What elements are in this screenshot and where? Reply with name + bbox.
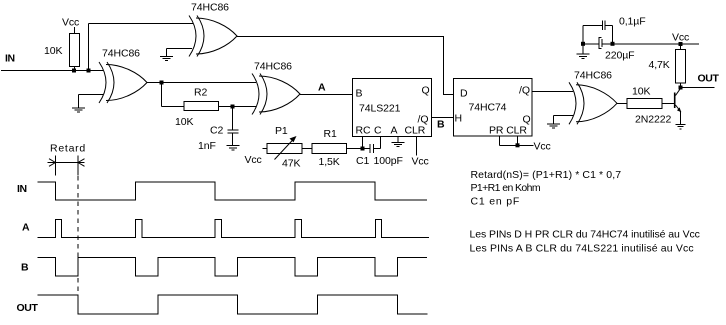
svg-text:P1+R1 en Kohm: P1+R1 en Kohm <box>471 182 541 194</box>
svg-text:A: A <box>22 222 30 234</box>
svg-text:1nF: 1nF <box>198 140 216 152</box>
resistor R2 body <box>184 102 219 111</box>
svg-text:100pF: 100pF <box>374 155 403 167</box>
node junction collector-OUT <box>679 86 683 90</box>
svg-text:B: B <box>437 119 445 131</box>
capacitor C2 plates <box>228 129 239 131</box>
pin CLR stub <box>517 136 519 145</box>
wire XOR1 lower input from ground <box>167 48 193 50</box>
pin RC stub <box>362 137 364 149</box>
node junction caps-rail <box>611 42 615 46</box>
wire 74LS221 /Q to H node B <box>432 117 454 119</box>
svg-text:C2: C2 <box>210 125 223 137</box>
capacitor C2 stem bottom <box>232 133 234 145</box>
svg-text:CLR: CLR <box>405 125 426 137</box>
wire Vcc rail <box>602 43 699 45</box>
IC U2 74HC74 box <box>454 79 533 137</box>
svg-text:C1 en pF: C1 en pF <box>471 196 521 208</box>
wire vertical to top XOR <box>88 24 90 71</box>
timing retard arrow left <box>49 159 56 167</box>
svg-text:RC: RC <box>356 125 371 137</box>
svg-text:IN: IN <box>5 53 15 65</box>
svg-text:OUT: OUT <box>17 302 39 314</box>
svg-text:H: H <box>455 113 462 125</box>
wire to R2 <box>162 106 185 108</box>
waveform IN <box>38 182 428 200</box>
svg-text:10K: 10K <box>175 116 193 128</box>
capacitor C1 plates <box>369 144 371 153</box>
svg-text:Vcc: Vcc <box>245 154 262 166</box>
wire decoupling left vertical <box>582 25 584 43</box>
potentiometer P1 body <box>267 144 302 154</box>
resistor 10K output body <box>627 99 662 109</box>
svg-text:74HC74: 74HC74 <box>469 102 507 114</box>
node junction Vcc-4,7K <box>679 42 683 46</box>
wire PR CLR to Vcc <box>500 144 534 146</box>
waveform B <box>38 258 428 277</box>
svg-text:Q: Q <box>422 85 430 97</box>
resistor R 10K pull-up body <box>70 34 80 67</box>
svg-text:A: A <box>391 125 398 137</box>
svg-text:47K: 47K <box>282 158 300 170</box>
svg-text:2N2222: 2N2222 <box>635 113 671 125</box>
node junction XOR2 out <box>160 81 164 85</box>
waveform OUT <box>38 295 428 314</box>
svg-text:Vcc: Vcc <box>62 17 79 29</box>
wire RC junction to C1 <box>363 148 370 150</box>
op-amp gate XOR3 74HC86 <box>252 74 300 115</box>
resistor R1 body <box>312 144 347 154</box>
wire decoupling top branch <box>583 24 602 26</box>
wire XOR4 output to 10K <box>617 102 627 104</box>
wire Vcc stub to P1 <box>263 148 268 150</box>
wire R2 to XOR3 lower input <box>219 106 257 108</box>
svg-text:74HC86: 74HC86 <box>102 48 140 60</box>
node junction IN-10K <box>72 69 76 73</box>
wire IN input <box>1 70 103 72</box>
svg-text:C: C <box>374 125 382 137</box>
ground XOR1 input <box>166 49 168 57</box>
resistor 4,7K body <box>676 50 686 84</box>
wire Q1 emitter to ground <box>680 112 682 124</box>
svg-text:Vcc: Vcc <box>534 141 551 153</box>
ground decoupling <box>582 44 584 54</box>
svg-text:Retard(nS)= (P1+R1) * C1 * 0,7: Retard(nS)= (P1+R1) * C1 * 0,7 <box>471 169 622 181</box>
wire 10K to Q1 base <box>662 102 674 104</box>
svg-text:D: D <box>460 88 468 100</box>
node junction IN-vertical <box>87 69 91 73</box>
svg-text:PR CLR: PR CLR <box>489 125 527 137</box>
svg-text:74HC86: 74HC86 <box>574 70 612 82</box>
wire 10K bottom stem <box>74 67 76 71</box>
wire CLR 74LS221 to Vcc <box>416 137 418 156</box>
svg-text:74LS221: 74LS221 <box>359 103 401 115</box>
CURVES <box>49 16 681 167</box>
node junction gnd-caps <box>581 42 585 46</box>
wire top to XOR1 input <box>89 23 194 25</box>
capacitor C2 stem top <box>232 107 234 130</box>
wire node down to R2 <box>161 83 163 107</box>
svg-text:P1: P1 <box>275 125 288 137</box>
ground C2 <box>227 145 240 147</box>
svg-text:B: B <box>21 262 29 274</box>
timing retard arrow right <box>78 159 85 167</box>
ground XOR2 input <box>78 95 80 108</box>
timing dashed delay line <box>77 176 79 291</box>
svg-text:/Q: /Q <box>519 85 530 97</box>
node junction RC-C1 <box>361 147 365 151</box>
svg-text:10K: 10K <box>44 45 62 57</box>
svg-text:IN: IN <box>17 183 27 195</box>
timing retard tick left <box>55 156 57 176</box>
wire XOR2 ground input <box>79 94 104 96</box>
wire Q1 collector up to 4,7K <box>680 83 682 88</box>
wire node A XOR3 to 74LS221 B <box>300 94 352 96</box>
node junction CLR-Vcc 74HC74 <box>516 143 520 147</box>
wire Vcc stem to 10K <box>74 27 76 34</box>
svg-text:R1: R1 <box>324 128 337 140</box>
wire XOR1 output to D <box>237 37 454 95</box>
pin C stub <box>380 137 382 149</box>
svg-text:220µF: 220µF <box>605 50 634 62</box>
transistor Q2 2N2222 <box>675 88 682 112</box>
capacitor 220uF plates <box>599 38 602 49</box>
timing retard dimension line <box>48 162 85 164</box>
svg-text:OUT: OUT <box>698 73 720 85</box>
IC U1 74LS221 box <box>353 79 432 137</box>
svg-text:B: B <box>356 88 363 100</box>
svg-text:74HC86: 74HC86 <box>191 2 229 14</box>
node junction R2-C2 <box>231 105 235 109</box>
potentiometer P1 arrow <box>275 136 297 160</box>
svg-text:C1: C1 <box>356 155 369 167</box>
svg-text:1,5K: 1,5K <box>319 156 340 168</box>
wire C1 to pin C <box>374 148 381 150</box>
wire R1 to RC junction <box>347 148 363 150</box>
wire 4,7K top to Vcc rail <box>680 44 682 50</box>
svg-text:Les PINs D H PR CLR du 74HC74: Les PINs D H PR CLR du 74HC74 inutilisé … <box>470 229 700 241</box>
waveform A <box>38 220 430 238</box>
pin PR stub <box>499 136 501 145</box>
svg-text:A: A <box>318 82 326 94</box>
svg-text:10K: 10K <box>632 86 650 98</box>
wire XOR2 output to node <box>147 82 256 84</box>
svg-text:0,1µF: 0,1µF <box>619 16 646 28</box>
wire P1 to R1 <box>302 148 312 150</box>
op-amp gate XOR2 74HC86 <box>99 62 147 103</box>
svg-text:74HC86: 74HC86 <box>254 61 292 73</box>
capacitor 0,1uF plates <box>601 21 603 30</box>
svg-text:R2: R2 <box>194 87 207 99</box>
svg-text:Vcc: Vcc <box>412 156 429 168</box>
ground pin A 74LS221 <box>397 137 399 142</box>
wire XOR4 ground input <box>554 115 574 117</box>
svg-text:4,7K: 4,7K <box>649 59 670 71</box>
wire 74HC74 /Q to XOR4 <box>532 91 573 93</box>
svg-text:Les PINs A B CLR du 74LS221 in: Les PINs A B CLR du 74LS221 inutilisé au… <box>470 243 694 255</box>
ground XOR4 input <box>553 116 555 124</box>
wire decoupling right vertical <box>612 25 614 43</box>
wire OUT <box>681 87 715 89</box>
svg-text:Vcc: Vcc <box>672 32 689 44</box>
op-amp gate XOR1 74HC86 <box>189 16 237 57</box>
svg-text:Retard: Retard <box>50 143 86 155</box>
timing retard tick right <box>77 156 79 176</box>
op-amp gate XOR4 74HC86 <box>569 82 617 124</box>
ground Q1 emitter <box>676 123 686 125</box>
